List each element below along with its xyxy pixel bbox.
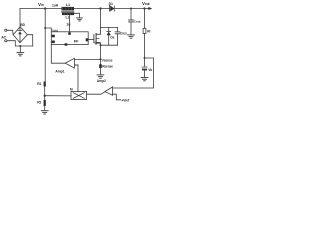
wire top rail mid segment <box>74 8 110 10</box>
inductor L2 winding <box>62 13 74 15</box>
wire drain line down from rail <box>100 9 102 32</box>
wire Amp2 output to multiplier <box>87 92 105 94</box>
capacitor Cout <box>129 9 134 35</box>
svg-text:R2: R2 <box>37 101 41 105</box>
transistor Qm MOSFET <box>88 31 100 45</box>
ground battery <box>141 78 148 81</box>
ground L2 <box>77 18 83 21</box>
wire divider mid node to multiplier left input <box>45 95 71 97</box>
resistor Rl box <box>143 28 146 33</box>
node junction dot switch node on rail <box>99 7 101 9</box>
svg-text:BD: BD <box>20 23 25 27</box>
wire AC bottom terminal down to bottom bus <box>7 41 15 46</box>
ground divider <box>41 111 48 114</box>
svg-text:1uH: 1uH <box>52 3 59 7</box>
svg-text:AC: AC <box>1 36 6 40</box>
node junction dot source bus <box>99 44 101 46</box>
AC source terminal top <box>5 29 7 31</box>
wire top rail left segment <box>20 8 62 10</box>
wire bridge bottom bus <box>15 45 32 47</box>
wire L2 left lead ZCD line down to controller <box>69 15 71 32</box>
wire bridge ground stem <box>19 46 21 52</box>
node junction dot divider mid <box>44 95 46 97</box>
wire controller bottom pin down to Amp1 output <box>51 45 65 64</box>
resistor R1 box <box>44 82 46 87</box>
wire sense line from source bus down <box>100 45 102 64</box>
svg-text:Amp2: Amp2 <box>97 79 106 83</box>
wire Rl to battery junction <box>144 34 146 67</box>
ground bridge <box>17 53 24 56</box>
svg-text:R1: R1 <box>37 82 41 86</box>
svg-text:Vin: Vin <box>38 2 44 7</box>
inductor L1 winding <box>62 7 75 11</box>
wire AC top terminal to bridge left vertex <box>7 30 13 34</box>
wire sense tap to Amp1 top input <box>74 59 100 61</box>
wire corner from rail down to bridge top <box>19 9 21 27</box>
node junction feedback tap <box>144 57 146 59</box>
diode D1 <box>110 5 115 11</box>
wire Vdd tap into controller left pin <box>45 28 51 32</box>
svg-text:Qm: Qm <box>95 41 100 45</box>
ground Rsense <box>97 75 104 78</box>
node junction dot Vin tap <box>44 7 46 9</box>
svg-text:Vdd: Vdd <box>52 29 58 33</box>
AC source terminal bottom <box>5 40 7 42</box>
resistor Rsense box <box>99 64 102 68</box>
node junction dot Vdd tap <box>44 27 46 29</box>
op-amp Amp1 <box>65 58 74 68</box>
svg-text:Vsense: Vsense <box>102 58 113 62</box>
svg-text:Vb: Vb <box>148 68 152 72</box>
wire Amp2 plus input to Vref stub <box>113 94 121 100</box>
wire Rsense to ground <box>100 68 102 75</box>
wire source ground bus <box>101 44 118 46</box>
node junction dot sense tap <box>99 58 101 60</box>
pin square controller bottom <box>65 43 68 45</box>
ground Cout <box>128 35 135 38</box>
svg-text:L2: L2 <box>66 16 70 20</box>
resistor R2 box <box>44 100 46 106</box>
svg-text:+Vref: +Vref <box>121 98 130 102</box>
wire multiplier output up to Amp1 lower input <box>74 65 78 91</box>
svg-text:Rl: Rl <box>147 30 150 34</box>
svg-text:L1: L1 <box>66 3 70 7</box>
wire bridge right vertex loop <box>27 35 32 46</box>
op-amp Amp2 <box>105 87 113 95</box>
wire Amp1 lower input to multiplier line <box>74 64 78 66</box>
svg-text:Cres: Cres <box>120 32 127 36</box>
diode inside bridge <box>18 28 22 43</box>
wire load line down <box>144 9 146 29</box>
pin square controller left upper <box>52 35 55 38</box>
wire switch node bus <box>101 26 118 28</box>
multiplier X box <box>71 91 87 99</box>
svg-text:Ds: Ds <box>110 36 114 40</box>
pin square controller top ZCD <box>68 32 71 34</box>
node junction dot Cout tap <box>130 7 132 9</box>
controller box FF <box>51 32 88 45</box>
svg-text:Rsense: Rsense <box>102 64 113 68</box>
diode Ds <box>107 27 111 45</box>
svg-text:Amp1: Amp1 <box>55 69 64 73</box>
bridge rectifier BD diamond <box>13 27 27 43</box>
pin square controller right Q output <box>86 38 89 41</box>
svg-text:FF: FF <box>74 39 79 44</box>
svg-text:Vout: Vout <box>142 1 151 6</box>
wire L2 right lead to ground <box>74 13 80 17</box>
battery Vb <box>142 67 147 77</box>
svg-text:1u: 1u <box>66 22 70 26</box>
pin square controller left lower <box>52 41 55 44</box>
wire top rail right segment <box>115 8 148 10</box>
transformer core <box>62 11 75 12</box>
svg-text:M: M <box>70 87 73 91</box>
wire divider vertical line <box>44 9 47 111</box>
wire feedback branch to Amp2 input <box>113 58 154 88</box>
capacitor Cres <box>115 27 120 45</box>
svg-text:Cout: Cout <box>134 19 141 23</box>
node junction dot bottom of bridge <box>19 45 21 47</box>
node Vout output arrow <box>148 8 150 10</box>
node junction dot load tap <box>143 7 145 9</box>
